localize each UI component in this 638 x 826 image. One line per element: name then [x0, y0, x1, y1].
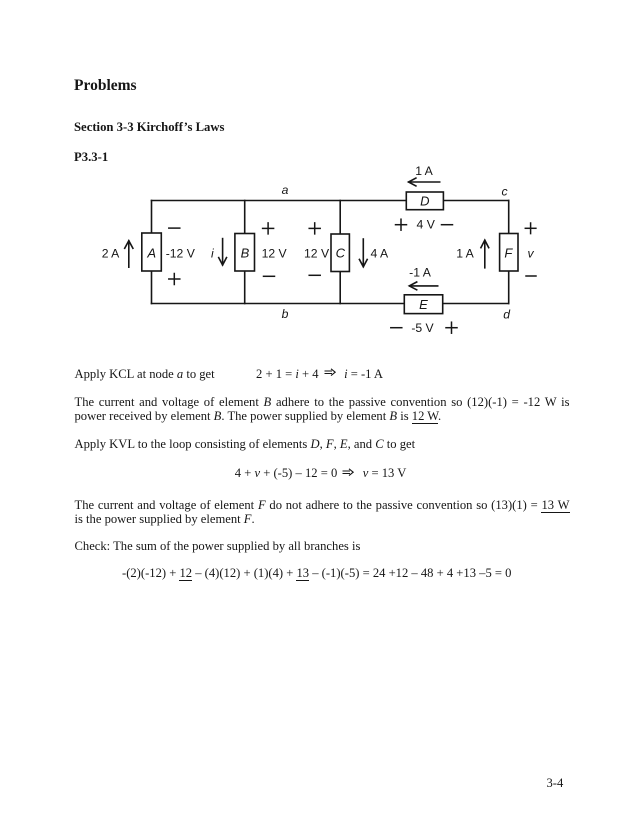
current arrow 1 A of F (up) [456, 240, 489, 268]
paragraph: Apply KVL [75, 438, 416, 452]
paragraph: element B passive convention [75, 396, 570, 410]
wire left branch through A [151, 201, 153, 304]
element B [235, 234, 255, 272]
current arrow 2 A (up) [102, 241, 133, 268]
paragraph: Check [75, 540, 361, 554]
heading P3.3-1 [74, 151, 108, 164]
paragraph: Apply KCL [75, 368, 215, 382]
svg-text:v: v [527, 247, 534, 261]
wire bottom bus left segment (node b) [152, 303, 405, 305]
element C [331, 234, 349, 272]
wire branch through C [339, 201, 341, 304]
equation check sum [122, 567, 511, 581]
svg-text:E: E [419, 297, 428, 312]
element A [142, 233, 162, 271]
svg-text:B: B [241, 246, 250, 261]
svg-text:12 V: 12 V [262, 246, 288, 260]
voltage label -12 V of A [166, 228, 196, 284]
svg-text:-1 A: -1 A [409, 265, 432, 279]
wire branch through B [244, 201, 246, 304]
wire top bus left segment (node a) [152, 200, 407, 202]
svg-text:1 A: 1 A [415, 164, 433, 178]
heading Problems [74, 78, 137, 94]
heading Section 3-3 Kirchoff's Laws [74, 121, 224, 134]
voltage label v of F [525, 223, 536, 276]
svg-text:1 A: 1 A [456, 246, 474, 260]
current arrow 4 A (down) [359, 239, 389, 267]
svg-text:b: b [282, 307, 289, 321]
current arrow -1 A of E (left) [409, 265, 438, 289]
svg-text:4 A: 4 A [371, 246, 389, 260]
element E [404, 295, 442, 314]
svg-text:2 A: 2 A [102, 246, 120, 260]
voltage label 12 V of B [262, 223, 288, 276]
wire bottom bus right segment (E to node d) [443, 303, 509, 305]
circuit schematic figure [90, 158, 550, 348]
element F [500, 234, 518, 272]
current arrow 1 A of D (left) [409, 164, 440, 186]
svg-text:-12 V: -12 V [166, 246, 196, 260]
wire top bus right segment (D to node c) [443, 200, 508, 202]
svg-text:12 V: 12 V [304, 246, 330, 260]
current arrow i (down) [211, 239, 227, 265]
voltage label 12 V of C [304, 223, 330, 275]
wire right branch through F [508, 201, 510, 304]
voltage label 4 V of D [396, 218, 453, 232]
svg-text:C: C [336, 246, 346, 261]
equation KVL [235, 467, 407, 481]
svg-text:4 V: 4 V [417, 218, 436, 232]
svg-text:c: c [502, 185, 508, 199]
svg-text:D: D [420, 194, 429, 209]
svg-text:A: A [146, 246, 156, 261]
svg-text:F: F [504, 246, 513, 261]
svg-text:a: a [282, 183, 289, 197]
paragraph: element F passive convention [75, 499, 570, 513]
svg-text:i: i [211, 246, 214, 260]
svg-text:d: d [503, 308, 511, 322]
element D [406, 192, 443, 210]
page number 3-4 [547, 777, 564, 791]
svg-text:-5 V: -5 V [411, 321, 434, 335]
voltage label -5 V of E [391, 321, 457, 335]
